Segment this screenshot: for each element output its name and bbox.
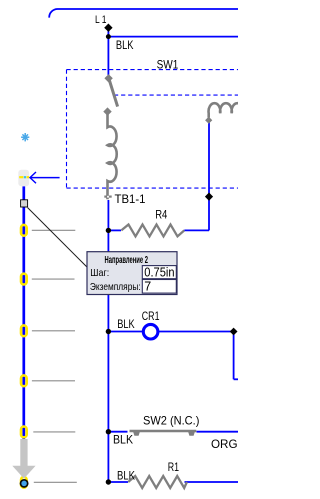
svg-text:BLK: BLK (117, 469, 135, 483)
svg-text:L 1: L 1 (95, 14, 107, 26)
svg-text:BLK: BLK (116, 38, 134, 52)
svg-text:R4: R4 (155, 207, 167, 221)
svg-text:Экземпляры:: Экземпляры: (90, 281, 141, 293)
svg-text:BLK: BLK (113, 432, 133, 446)
svg-text:CR1: CR1 (142, 309, 160, 323)
svg-text:Шаг:: Шаг: (90, 267, 109, 279)
svg-text:SW2 (N.C.): SW2 (N.C.) (143, 413, 199, 427)
svg-text:ORG: ORG (211, 437, 238, 451)
svg-text:SW1: SW1 (157, 57, 179, 71)
svg-text:0.75in: 0.75in (144, 266, 174, 280)
svg-text:R1: R1 (168, 460, 180, 474)
svg-text:7: 7 (144, 280, 151, 294)
svg-text:TB1-1: TB1-1 (115, 192, 146, 206)
svg-text:BLK: BLK (117, 317, 134, 331)
svg-text:Направление 2: Направление 2 (105, 255, 149, 266)
